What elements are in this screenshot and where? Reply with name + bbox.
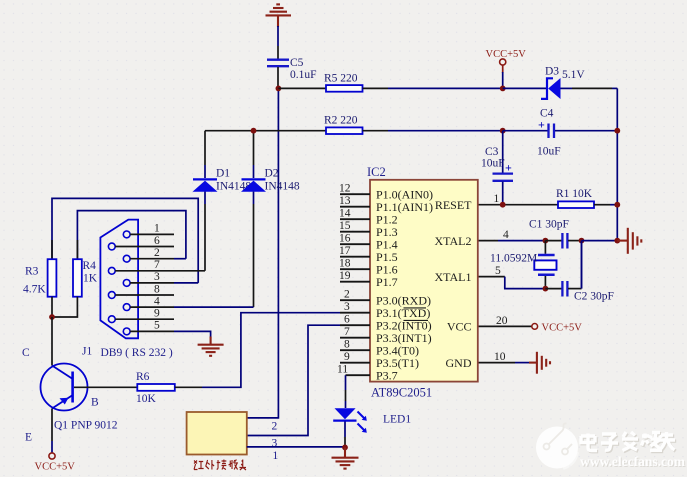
svg-text:1: 1 [494,193,500,205]
pin P1.0 (12) [339,183,433,202]
wire (chip P3.7 pin 11 down to LED) [345,375,347,390]
transistor Q1 PNP 9012 [22,347,118,444]
svg-text:C: C [22,347,30,359]
pin P3.5 (9) [340,351,419,370]
node (junction R3/R4 to Q1 collector) [49,314,55,320]
svg-text:10uF: 10uF [537,146,561,158]
svg-text:8: 8 [344,339,350,351]
svg-text:9: 9 [154,308,160,320]
svg-text:GND: GND [446,356,472,370]
pin P1.7 (19) [339,270,398,289]
node (junction right bus / XTAL2 ground) [614,238,620,244]
wire (C1 node to right bus / ground) [582,240,618,242]
svg-text:B: B [91,397,99,409]
svg-text:R4: R4 [83,260,97,272]
pin P3.3 (7) [340,326,432,345]
svg-text:14: 14 [339,208,351,220]
svg-text:7: 7 [154,259,160,271]
pin P1.2 (14) [339,208,398,227]
pin P1.3 (15) [339,220,398,239]
capacitor C1 30pF [529,219,582,249]
svg-text:R3: R3 [25,266,39,278]
svg-text:19: 19 [339,270,351,282]
wire (R3 top to DB9 pin 3 loop) [52,198,198,283]
svg-text:5.1V: 5.1V [562,69,585,81]
svg-text:+: + [505,161,512,175]
node (junction D2/R2) [251,128,257,134]
svg-text:11.0592M: 11.0592M [490,253,537,265]
capacitor C5 [267,57,317,88]
svg-text:J1: J1 [82,346,92,358]
pin P3.7 (11) [337,364,398,383]
svg-text:AT89C2051: AT89C2051 [371,386,432,400]
svg-text:1K: 1K [83,273,98,285]
pin P1.6 (18) [339,258,398,277]
svg-text:IN4148: IN4148 [265,181,300,193]
resistor R5 [278,73,502,92]
pin P3.4 (8) [340,339,419,358]
pin XTAL1 (5) [434,265,501,284]
ground (GND pin 10, right-facing) [478,352,550,374]
diode D1 IN4148 [193,131,252,271]
svg-text:13: 13 [339,195,351,207]
svg-text:15: 15 [339,220,351,232]
ground (right side, XTAL2 net) [617,228,641,254]
node (junction XTAL1/crystal) [543,286,549,292]
wire (XTAL1 pin 5 path) [478,276,505,278]
红 [194,461,197,470]
pin 3 (DB9) [123,271,198,286]
pin VCC (20) [447,315,508,334]
svg-text:LED1: LED1 [383,414,411,426]
svg-text:4.7K: 4.7K [23,284,46,296]
svg-text:7: 7 [344,326,350,338]
power VCC+5V (pin 20) [478,323,582,334]
pin 2 (DB9) [123,247,186,262]
resistor R2 [205,115,503,135]
node (junction C4/right bus) [614,128,620,134]
pin 7 (DB9) [108,259,205,274]
capacitor C2 30pF [545,241,614,303]
svg-text:18: 18 [339,258,351,270]
watermark text 电子发烧友 (drawn glyphs, white) [580,432,687,470]
wire (R4 top to DB9 pin 2 loop) [77,211,185,260]
capacitor C3 10uF [481,131,513,205]
svg-text:10K: 10K [136,393,157,405]
头 [239,460,246,471]
接 [217,460,220,470]
pin P3.2 (6) INT0 [340,314,432,333]
svg-text:+: + [538,118,545,132]
pin 5 (DB9) [123,320,210,338]
svg-text:20: 20 [496,315,508,327]
ground (top, above C5) [266,4,292,27]
svg-text:10uF: 10uF [481,158,505,170]
svg-text:XTAL1: XTAL1 [434,270,471,284]
pin GND (10) [446,351,506,370]
svg-text:1: 1 [154,223,160,235]
svg-text:C3: C3 [485,146,499,158]
svg-text:6: 6 [344,314,350,326]
svg-text:3: 3 [154,271,160,283]
svg-text:R2 220: R2 220 [324,115,358,127]
svg-text:DB9 ( RS 232 ): DB9 ( RS 232 ) [101,347,173,359]
IR receiver module box [187,412,279,462]
node (junction R2/C4/VCC bus) [500,128,506,134]
node (junction C1/C2 riser) [579,238,585,244]
node (junction VCC/R5/D3) [500,86,506,92]
svg-text:4: 4 [154,295,160,307]
LED LED1 [333,408,411,447]
svg-text:2: 2 [154,247,160,259]
svg-text:10: 10 [494,351,506,363]
pin 4 (DB9) [123,295,253,310]
svg-text:R6: R6 [136,371,150,383]
crystal Y1 11.0592M [490,241,557,289]
node (junction XTAL2/crystal/C1) [543,238,549,244]
svg-text:www.elecfans.com: www.elecfans.com [580,454,686,469]
pin 1 (DB9) [123,223,174,238]
node (junction RESET/C3) [500,202,506,208]
capacitor C4 10uF [503,108,618,158]
resistor R3 4.7K [23,240,56,317]
svg-text:E: E [25,432,32,444]
svg-text:5: 5 [495,265,501,277]
zener diode D3 5.1V [503,66,618,100]
svg-text:12: 12 [339,183,351,195]
svg-text:11: 11 [337,364,348,376]
pin 9 (DB9) [108,308,174,323]
wire (chip P3.2 to IR pin 3) [247,325,340,435]
watermark logo (elecfans, white) [536,423,578,468]
svg-text:9: 9 [344,351,350,363]
svg-text:0.1uF: 0.1uF [290,69,317,81]
svg-text:C1 30pF: C1 30pF [529,219,569,231]
pin 8 (DB9) [108,283,174,298]
wire (XTAL2 pin 4 row) [478,240,498,242]
svg-text:Q1 PNP 9012: Q1 PNP 9012 [54,420,118,432]
svg-text:1: 1 [273,450,279,462]
svg-text:16: 16 [339,233,351,245]
wire (RESET pin 1 to R1) [478,204,558,206]
svg-text:R1 10K: R1 10K [556,188,593,200]
svg-text:6: 6 [154,235,160,247]
wire (R6 to chip P3.1) [202,313,340,388]
pin P1.1 (13) [339,195,433,214]
pin P1.4 (16) [339,233,398,252]
pin 6 (DB9) [108,235,174,250]
connector J1 DB9 (RS 232) outline [82,220,173,359]
ground (below LED) [332,447,359,468]
pin P1.5 (17) [339,245,398,264]
pin RESET (1) [435,193,500,212]
svg-text:R5 220: R5 220 [324,73,358,85]
svg-text:P1.7: P1.7 [376,275,398,289]
svg-text:3: 3 [344,301,350,313]
收 [229,460,232,469]
svg-text:2: 2 [272,421,278,433]
svg-text:17: 17 [339,245,351,257]
svg-text:4: 4 [503,229,509,241]
wire (IR pin 1 to LED cathode node) [247,446,345,448]
svg-text:C4: C4 [540,108,554,120]
pin P3.1 (3) TXD [340,301,430,320]
svg-text:VCC+5V: VCC+5V [35,462,76,473]
power VCC+5V (top) [486,49,527,88]
svg-text:D1: D1 [216,168,230,180]
resistor R6 10K [74,371,202,405]
svg-text:C2 30pF: C2 30pF [574,291,614,303]
svg-text:VCC: VCC [447,320,472,334]
node (junction LED/IR pin1/ground) [342,445,348,451]
resistor R4 1K [52,240,98,317]
diode D2 IN4148 [241,131,300,307]
ground (DB9 pin 5) [198,337,224,356]
resistor R1 10K [556,188,617,208]
svg-text:D2: D2 [265,168,279,180]
op-amp: microcontroller U IC2 AT89C2051 body [367,165,478,400]
wire (long vertical from C5 node down to IR pin2) [247,88,279,418]
node (junction R1/right bus) [614,202,620,208]
wire (right-side vertical bus) [616,88,618,241]
power VCC+5V (bottom left, emitter) [35,441,76,473]
wire (junction to Q1 collector) [51,317,53,366]
svg-text:RESET: RESET [435,198,472,212]
svg-text:VCC+5V: VCC+5V [542,323,583,334]
svg-text:XTAL2: XTAL2 [434,234,471,248]
pin P3.0 (2) [340,289,431,308]
svg-text:8: 8 [154,283,160,295]
wire (top ground to C5) [277,26,279,46]
svg-text:D3: D3 [545,66,559,78]
svg-text:5: 5 [154,320,160,332]
label 红外接收头 (IR receiver caption, drawn glyphs) [194,460,246,471]
外 [206,460,210,469]
svg-text:C5: C5 [290,57,304,69]
svg-text:VCC+5V: VCC+5V [486,49,527,60]
svg-text:IC2: IC2 [367,165,386,179]
node (junction C5/R5/IR line) [276,86,282,92]
svg-text:P3.7: P3.7 [376,368,398,382]
pin XTAL2 (4) [434,229,509,248]
svg-text:2: 2 [344,289,350,301]
